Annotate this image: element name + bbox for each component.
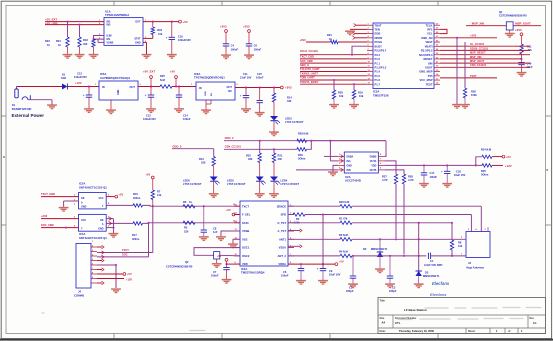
svg-text:R5: R5	[184, 226, 188, 230]
svg-text:3: 3	[339, 163, 341, 165]
ground	[241, 109, 251, 113]
svg-text:100uF/16V: 100uF/16V	[74, 75, 87, 79]
svg-text:VDD: VDD	[371, 164, 376, 167]
svg-text:LTST-C170CKT: LTST-C170CKT	[183, 182, 202, 186]
capacitor C15 label	[256, 72, 264, 80]
title block	[378, 298, 546, 334]
wire	[322, 215, 324, 269]
svg-text:GND_MSP: GND_MSP	[419, 70, 432, 74]
svg-text:VBATI: VBATI	[425, 44, 433, 48]
svg-text:TDIN_UART: TDIN_UART	[300, 76, 315, 80]
svg-text:R34 N.M: R34 N.M	[481, 148, 491, 152]
diode D2 label	[363, 247, 388, 251]
svg-text:3: 3	[485, 229, 487, 231]
capacitor C14	[176, 87, 191, 122]
svg-text:Vogt Antenna: Vogt Antenna	[466, 265, 484, 269]
svg-text:3: 3	[140, 84, 142, 86]
svg-text:UCC27424D: UCC27424D	[345, 179, 361, 183]
svg-text:P3.4: P3.4	[375, 53, 381, 57]
node +5V	[123, 272, 132, 276]
wire	[226, 261, 240, 265]
node +3V3	[280, 86, 292, 90]
ground	[255, 181, 265, 197]
wire	[143, 204, 241, 207]
svg-text:+3V3: +3V3	[300, 38, 307, 42]
svg-text:+: +	[83, 93, 85, 97]
wire	[440, 49, 530, 51]
resistor R25	[160, 74, 172, 88]
node +5V	[217, 255, 228, 261]
svg-text:TCLK/TX_UART: TCLK/TX_UART	[300, 67, 320, 71]
wire	[403, 184, 405, 255]
capacitor C9	[317, 267, 341, 280]
svg-text:ENBB: ENBB	[370, 155, 377, 158]
svg-text:VBAT: VBAT	[425, 40, 432, 44]
svg-text:CSTCRHN8000S5B-R0: CSTCRHN8000S5B-R0	[499, 14, 527, 18]
svg-text:100k: 100k	[471, 93, 477, 97]
wire	[451, 250, 453, 257]
driver U2A label	[345, 175, 361, 183]
wire	[67, 21, 69, 37]
svg-text:100nF: 100nF	[430, 175, 438, 179]
svg-text:C14: C14	[183, 113, 188, 117]
ground	[349, 99, 359, 108]
wire	[93, 36, 104, 43]
svg-text:+: +	[166, 36, 168, 40]
wire	[143, 21, 179, 23]
node TCLK/TX_UART	[300, 67, 320, 71]
wire	[351, 46, 367, 55]
node MSP_RESET	[470, 51, 486, 55]
wire	[451, 223, 453, 240]
svg-text:GND: GND	[205, 91, 207, 96]
wire	[353, 36, 367, 39]
node MSP_XOUT	[470, 59, 485, 63]
svg-text:TXCT_CBD: TXCT_CBD	[300, 55, 314, 59]
svg-text:C13: C13	[77, 71, 82, 75]
svg-text:ENBA: ENBA	[347, 155, 354, 158]
svg-text:R1 47k: R1 47k	[339, 216, 348, 220]
wire	[352, 238, 466, 240]
svg-text:OSC1: OSC1	[242, 246, 250, 250]
svg-text:TXCT: TXCT	[122, 248, 129, 252]
svg-text:B: B	[3, 156, 5, 159]
wire	[97, 223, 149, 259]
svg-text:5: 5	[468, 229, 470, 231]
svg-text:1: 1	[92, 241, 94, 243]
svg-text:GND: GND	[98, 228, 104, 231]
wire	[333, 165, 338, 171]
svg-text:TEST: TEST	[470, 74, 477, 78]
svg-text:GND: GND	[347, 164, 353, 167]
driver U2A	[338, 152, 384, 173]
watermark remnants	[42, 281, 541, 331]
svg-text:Sheet: Sheet	[468, 330, 475, 333]
resistor R20	[332, 90, 344, 99]
ground	[442, 184, 452, 188]
svg-text:13uF 16V: 13uF 16V	[240, 76, 252, 80]
wire	[300, 58, 367, 60]
node +5V	[226, 208, 235, 216]
wire	[440, 37, 497, 39]
svg-text:220: 220	[184, 229, 189, 233]
wire	[288, 255, 340, 257]
svg-text:C7: C7	[213, 270, 217, 274]
wire	[273, 121, 275, 132]
svg-text:Elecfans: Elecfans	[432, 281, 450, 286]
svg-text:P1.1: P1.1	[375, 61, 381, 65]
LED LED5	[227, 163, 266, 187]
svg-text:R3.UP3.2: R3.UP3.2	[421, 49, 433, 53]
svg-text:100nF: 100nF	[211, 274, 219, 278]
svg-text:XOUT: XOUT	[425, 66, 433, 70]
svg-text:C15: C15	[257, 72, 262, 76]
ground	[460, 98, 470, 108]
ground	[414, 284, 424, 288]
svg-text:VDD: VDD	[242, 262, 248, 266]
svg-text:LED3: LED3	[285, 116, 292, 120]
svg-text:330: 330	[287, 99, 292, 103]
svg-text:LED5: LED5	[227, 178, 234, 182]
svg-text:R17: R17	[132, 233, 137, 237]
wire	[97, 206, 153, 254]
svg-text:P3.5/P3.7: P3.5/P3.7	[375, 49, 387, 53]
svg-text:R3 N.M: R3 N.M	[339, 233, 348, 237]
wire	[143, 35, 153, 39]
node TEST	[470, 74, 477, 78]
svg-text:R4 N.M: R4 N.M	[339, 249, 348, 253]
ground	[75, 47, 85, 58]
svg-text:LTST-C170CKT: LTST-C170CKT	[281, 182, 300, 186]
zener D2	[377, 239, 383, 268]
node +12V	[126, 277, 132, 281]
svg-text:Date:: Date:	[380, 330, 386, 333]
wire	[106, 227, 114, 233]
resistor R31	[272, 153, 283, 162]
svg-text:OUT: OUT	[130, 85, 136, 89]
svg-text:GND: GND	[135, 42, 141, 45]
ground	[296, 281, 306, 285]
resistor R34 NM	[476, 148, 492, 166]
resistor R1	[339, 216, 352, 224]
svg-text:+5V: +5V	[119, 192, 124, 196]
wire	[172, 86, 196, 88]
regulator IC6A label	[194, 72, 225, 80]
buffer IC4A	[74, 214, 110, 231]
wire	[106, 204, 133, 206]
svg-text:TPS76933QDBVRG4Q1: TPS76933QDBVRG4Q1	[194, 76, 225, 80]
svg-text:C4: C4	[231, 44, 235, 48]
svg-text:SCLK_CC1101: SCLK_CC1101	[300, 49, 318, 53]
svg-text:3: 3	[74, 204, 76, 206]
svg-text:MMSZ4691T1: MMSZ4691T1	[371, 247, 388, 251]
wire	[353, 32, 367, 35]
regulator IC5A	[95, 81, 142, 100]
svg-text:+5V: +5V	[226, 208, 231, 212]
svg-text:3.3nF 50V NPO: 3.3nF 50V NPO	[424, 263, 442, 267]
svg-text:OUTB: OUTB	[370, 169, 377, 172]
wire	[106, 222, 133, 225]
LED LED6	[183, 166, 220, 186]
ground	[59, 208, 69, 212]
svg-text:4: 4	[476, 228, 478, 231]
svg-text:A_TST: A_TST	[277, 229, 286, 233]
wire	[206, 100, 211, 110]
resistor R11	[520, 36, 533, 54]
mcu IC3A label	[373, 90, 389, 98]
svg-text:P1.4: P1.4	[375, 70, 381, 74]
svg-text:SOC: SOC	[122, 252, 128, 256]
capacitor C6	[281, 264, 304, 280]
resistor R29	[297, 132, 386, 143]
antenna connector J2 label	[466, 261, 484, 269]
svg-text:1k: 1k	[47, 43, 50, 47]
node MSP_XOUT	[515, 21, 531, 25]
capacitor C15	[257, 88, 263, 113]
svg-text:B: B	[547, 169, 549, 172]
wire	[110, 100, 112, 110]
svg-text:Thursday, February 19, 2009: Thursday, February 19, 2009	[399, 329, 434, 333]
wire	[440, 66, 530, 68]
node +3V3	[470, 34, 477, 38]
svg-text:R18: R18	[83, 38, 88, 42]
wire	[235, 87, 280, 89]
svg-text:GND: GND	[117, 89, 120, 95]
svg-text:IN: IN	[199, 86, 202, 90]
svg-text:SOC_CBD: SOC_CBD	[300, 59, 313, 63]
wire	[300, 83, 367, 85]
crystal Q1	[506, 22, 513, 33]
wire	[41, 196, 79, 198]
svg-text:MSP_XIN: MSP_XIN	[470, 55, 482, 59]
capacitor C16	[166, 22, 192, 54]
svg-text:GND_AN: GND_AN	[421, 36, 432, 40]
node +5V	[170, 70, 177, 87]
svg-text:4.7R: 4.7R	[408, 178, 414, 182]
svg-text:COM#B: COM#B	[74, 293, 84, 297]
svg-text:SOC_CBD: SOC_CBD	[41, 223, 54, 227]
wire	[305, 214, 471, 232]
svg-text:+3V3: +3V3	[470, 34, 477, 38]
svg-text:N.M: N.M	[160, 78, 165, 82]
resistor R17	[132, 222, 142, 241]
svg-text:R22: R22	[157, 28, 162, 32]
svg-text:R31: R31	[278, 153, 283, 157]
svg-text:R20 N.M: R20 N.M	[339, 200, 349, 204]
svg-text:100nF: 100nF	[254, 47, 262, 51]
svg-text:100nF: 100nF	[183, 117, 191, 121]
wire	[45, 22, 104, 25]
wire	[41, 218, 79, 220]
svg-text:R2: R2	[296, 217, 300, 221]
svg-text:CSN_CC1101: CSN_CC1101	[470, 63, 487, 67]
svg-text:1: 1	[191, 84, 193, 86]
svg-text:OUT: OUT	[227, 85, 233, 89]
svg-text:CTL: CTL	[395, 321, 401, 325]
svg-text:OE: OE	[81, 197, 85, 200]
svg-text:R21: R21	[327, 33, 332, 37]
zener D3	[416, 270, 440, 283]
svg-text:CSTCR4M00G55B-R0: CSTCR4M00G55B-R0	[166, 264, 193, 268]
svg-text:OSC2: OSC2	[242, 254, 250, 258]
capacitor C11	[240, 88, 249, 109]
svg-text:1: 1	[95, 84, 97, 86]
wire	[288, 245, 302, 248]
svg-text:MSP_XOUT: MSP_XOUT	[515, 21, 531, 25]
wire	[68, 86, 100, 88]
svg-text:+12V: +12V	[75, 81, 82, 85]
wire	[300, 75, 367, 77]
svg-text:RF1: RF1	[427, 28, 433, 32]
power mux U1A label	[105, 9, 129, 17]
lf base station IC2A label	[241, 267, 265, 275]
ground	[348, 284, 358, 288]
wire	[300, 62, 367, 64]
node GDO_2	[225, 136, 234, 140]
wire	[259, 141, 261, 153]
svg-text:+12V: +12V	[126, 277, 132, 281]
svg-text:VSNS: VSNS	[107, 42, 114, 45]
wire	[288, 263, 335, 265]
capacitor C2	[346, 256, 356, 293]
regulator IC6A	[191, 82, 239, 100]
svg-text:SBO_S: SBO_S	[300, 63, 309, 67]
wire	[152, 179, 154, 190]
svg-text:C17: C17	[430, 171, 435, 175]
resistor R20 NM	[339, 200, 352, 208]
svg-text:LED4: LED4	[281, 178, 288, 182]
svg-text:10k: 10k	[158, 32, 163, 36]
wire	[350, 28, 367, 30]
svg-text:100nF: 100nF	[281, 274, 289, 278]
resistor R2	[288, 213, 305, 225]
svg-text:+5V: +5V	[506, 155, 511, 159]
svg-text:R35: R35	[481, 169, 486, 173]
wire	[353, 83, 355, 90]
crystal Q1 label	[499, 10, 527, 18]
wire	[97, 259, 104, 262]
ground	[222, 280, 232, 284]
wire	[288, 205, 340, 207]
svg-text:R28: R28	[408, 174, 413, 178]
svg-text:0Ohm: 0Ohm	[481, 172, 489, 176]
resistor R4 NM	[339, 249, 352, 257]
svg-text:3: 3	[108, 225, 110, 227]
svg-text:+5V: +5V	[183, 20, 188, 24]
node SBO_S	[300, 63, 309, 67]
svg-text:External Power: External Power	[12, 113, 45, 118]
wire	[234, 214, 240, 216]
svg-text:OUT: OUT	[135, 21, 141, 24]
svg-text:SCIO: SCIO	[242, 221, 249, 225]
resistor R27	[382, 174, 398, 184]
svg-text:R7: R7	[157, 189, 161, 193]
resistor R3 NM	[339, 233, 352, 241]
resistor R35	[481, 164, 492, 177]
wire	[440, 58, 522, 60]
wire	[330, 160, 338, 162]
ground	[142, 55, 152, 59]
ground	[228, 244, 238, 248]
svg-text:+5V: +5V	[217, 255, 222, 258]
capacitor C12	[143, 87, 156, 122]
svg-text:R6: R6	[183, 200, 187, 204]
resistor R13	[199, 157, 215, 166]
wire	[296, 169, 338, 171]
svg-text:SN74AHCT1G125-Q1: SN74AHCT1G125-Q1	[79, 236, 107, 240]
svg-text:R36: R36	[471, 89, 476, 93]
ground	[385, 284, 395, 288]
svg-text:+5V: +5V	[146, 172, 151, 176]
node CSN_CC1101	[470, 63, 487, 67]
svg-text:VSS: VSS	[242, 237, 248, 241]
capacitor C17	[421, 165, 438, 183]
svg-text:TBAT: TBAT	[375, 23, 382, 27]
wire	[64, 201, 79, 207]
svg-text:5: 5	[237, 84, 239, 86]
resistor R14	[272, 88, 292, 104]
svg-text:1: 1	[461, 253, 463, 255]
svg-text:10k: 10k	[359, 94, 364, 98]
svg-text:STAT: STAT	[134, 38, 141, 41]
svg-text:BUSY: BUSY	[375, 44, 383, 48]
svg-text:TEN: TEN	[375, 28, 380, 32]
svg-text:LTST-C170CKT: LTST-C170CKT	[227, 182, 246, 186]
svg-text:SL_CC1101: SL_CC1101	[470, 42, 485, 46]
wire	[288, 238, 340, 240]
svg-text:INB: INB	[347, 169, 351, 172]
svg-text:S1B: S1B	[61, 76, 66, 80]
svg-text:Elecfans: Elecfans	[430, 292, 447, 297]
wire	[97, 245, 104, 248]
svg-text:Size: Size	[380, 317, 385, 320]
ground	[63, 47, 73, 58]
svg-text:ANT_2: ANT_2	[277, 254, 286, 258]
svg-text:C12: C12	[146, 113, 151, 117]
ground	[106, 110, 116, 114]
svg-text:P1.5: P1.5	[375, 74, 381, 78]
svg-text:MSP_XOUT: MSP_XOUT	[470, 59, 485, 63]
wire	[97, 281, 104, 284]
svg-text:UA78M05QDCYRG4Q1: UA78M05QDCYRG4Q1	[100, 76, 131, 80]
svg-text:R27: R27	[382, 174, 387, 178]
svg-text:+: +	[240, 94, 242, 98]
wire	[431, 255, 466, 257]
node +12V	[75, 81, 82, 85]
svg-text:RASM712P-ND: RASM712P-ND	[12, 107, 32, 111]
svg-text:IN2: IN2	[107, 24, 112, 27]
svg-text:5: 5	[380, 168, 382, 170]
svg-text:+: +	[441, 170, 443, 174]
wire	[352, 255, 426, 257]
wire	[216, 259, 218, 263]
node TXCT	[122, 248, 129, 252]
svg-text:D3: D3	[425, 270, 429, 274]
ground	[199, 237, 209, 241]
svg-text:10k: 10k	[157, 193, 162, 197]
svg-text:R29 N.M: R29 N.M	[298, 132, 308, 136]
svg-text:330: 330	[248, 157, 253, 161]
svg-text:R25: R25	[160, 74, 165, 78]
ground	[255, 113, 265, 117]
node +5V_EXT	[45, 18, 57, 22]
ground	[328, 172, 338, 176]
svg-text:C9: C9	[329, 269, 333, 273]
wire	[466, 25, 541, 27]
svg-text:MMSZ4691T1: MMSZ4691T1	[423, 274, 440, 278]
wire	[329, 141, 331, 161]
svg-text:P1.6: P1.6	[375, 78, 381, 82]
